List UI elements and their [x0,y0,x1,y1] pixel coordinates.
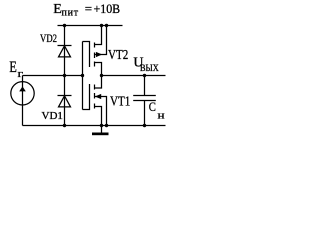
wire: VD2 column (rail to input node) [64,26,66,76]
svg-text:Е: Е [9,59,17,77]
svg-text:VD2: VD2 [40,33,57,46]
label Eпит = +10В [53,1,120,19]
wire: input node horizontal (Eг to gate bus) [23,75,83,77]
junction dot: Cн at bottom rail [143,124,146,127]
capacitor Cн: top plate [133,95,156,97]
svg-text:VT2: VT2 [108,47,128,62]
junction dot: VT2 bulk at rail [105,24,108,27]
transistor VT2: gate lead and gate bar [83,42,90,68]
junction dot: VT1 bulk at bottom rail [105,124,108,127]
transistor VT2: source lead down to output node [95,63,102,76]
transistor VT2: channel segment (drain) [94,43,96,48]
svg-text:+10В: +10В [94,2,121,17]
svg-text:=: = [85,1,92,16]
source Eг: circle [11,82,34,105]
svg-text:ВЫХ: ВЫХ [140,63,159,74]
transistor VT1: bulk arrow (n-channel, points toward channel) [95,94,101,99]
transistor VT2: drain lead to rail [95,26,102,45]
junction dot: VD2 cathode at rail [63,24,66,27]
wire: VD1 column (input node to bottom rail) [64,76,66,126]
diode VD2 (cathode bar) [58,45,72,47]
diode VD2 (anode triangle) [59,46,71,57]
label Cн [149,99,165,121]
label Eг [9,59,23,80]
transistor VT1: source lead down to bottom rail [95,107,102,126]
source Eг: wire through circle from input wire to bottom rail [22,76,24,126]
transistor VT1: gate lead and gate bar [83,84,90,110]
source Eг: EMF arrow (points up) [19,86,26,91]
junction dot: Cн at output wire [143,74,146,77]
svg-text:С: С [149,99,156,114]
wire: Cн bottom lead to bottom rail [144,101,146,126]
wire: bottom (ground) rail [23,125,166,127]
svg-text:н: н [158,108,166,121]
wire: output node to Uвых terminal [102,75,166,77]
junction dot: VD column at input node [63,74,66,77]
transistor VT1: drain lead up to output node [95,76,102,89]
transistor VT2: bulk lead to rail [95,26,107,55]
wire: Cн top lead from output wire [144,76,146,96]
capacitor Cн: bottom plate [133,100,156,102]
transistor VT1: channel segment (drain) [94,85,96,90]
junction dot: output node between VT1 and VT2 [100,74,103,77]
transistor VT1: channel segment (source) [94,104,96,109]
junction dot: VT1 source at bottom rail [100,124,103,127]
wire: gate bus vertical [82,42,84,110]
transistor VT2: channel segment (source) [94,62,96,67]
svg-text:пит: пит [62,8,79,19]
transistor VT1: channel segment (bulk) [94,93,96,99]
ground: stem below rail [101,126,103,133]
ground: bar [92,133,109,136]
junction dot: input node at gate bus [81,74,84,77]
transistor VT2: channel segment (bulk) [94,53,96,59]
wire: +Eпит top rail [58,25,123,27]
diode VD1 (anode triangle) [59,96,71,107]
diode VD1 (cathode bar) [58,95,72,97]
label Uвых [133,56,159,74]
svg-text:VT1: VT1 [110,93,130,108]
junction dot: VD1 anode at bottom rail [63,124,66,127]
junction dot: VT2 drain at rail [100,24,103,27]
svg-text:VD1: VD1 [42,110,63,122]
transistor VT2: bulk arrow (p-channel, points away from channel) [96,52,102,57]
transistor VT1: bulk lead to bottom rail [95,97,107,126]
